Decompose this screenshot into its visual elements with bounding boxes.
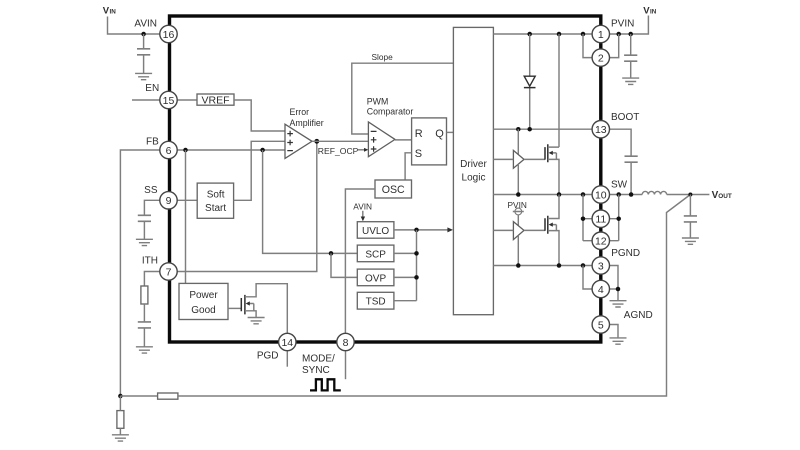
svg-text:EN: EN — [145, 83, 159, 94]
wire LS buffer to gate — [524, 229, 545, 231]
wire FB pin6 to divider node — [120, 150, 160, 396]
svg-text:9: 9 — [166, 195, 172, 207]
svg-text:8: 8 — [343, 337, 349, 349]
capacitor bootstrap — [609, 129, 638, 194]
diode bootstrap — [524, 34, 536, 129]
svg-text:UVLO: UVLO — [362, 226, 389, 237]
block SCP — [357, 245, 394, 262]
svg-text:OVP: OVP — [365, 273, 386, 284]
svg-text:11: 11 — [595, 214, 606, 226]
pin 2 — [592, 49, 609, 66]
svg-text:10: 10 — [595, 189, 607, 201]
pin 4 — [592, 280, 609, 297]
svg-text:2: 2 — [598, 52, 604, 64]
node VOUT junction — [688, 193, 692, 197]
pin 10 — [592, 186, 609, 203]
wire pin5 to ground — [609, 325, 618, 338]
wire node to top resistor — [120, 395, 157, 397]
capacitor ITH compensation — [138, 322, 151, 347]
wire inductor to VOUT — [667, 194, 710, 196]
svg-text:14: 14 — [281, 337, 293, 349]
wire FB pin6 to error amp inverting input — [177, 149, 285, 151]
wire pin2 left bracket — [583, 34, 593, 58]
wire EN stub — [132, 99, 160, 101]
svg-text:FB: FB — [146, 137, 159, 148]
pin 5 — [592, 316, 609, 333]
ground output cap — [682, 238, 699, 244]
wire SW to inductor — [609, 194, 642, 196]
svg-text:IN: IN — [650, 8, 657, 15]
block OSC — [375, 180, 412, 198]
wire FB branch to Power Good — [185, 150, 187, 283]
svg-text:Slope: Slope — [372, 52, 394, 62]
ground AVIN cap — [135, 73, 152, 79]
ground AGND (pins 3/4) — [610, 301, 627, 307]
buffer high-side gate driver — [513, 150, 524, 168]
svg-text:Good: Good — [191, 305, 215, 316]
svg-text:SCP: SCP — [365, 249, 386, 260]
wire driver logic to HS buffer — [493, 158, 513, 160]
wire pins 10-11-12 left bracket — [583, 195, 593, 241]
svg-text:AVIN: AVIN — [134, 18, 157, 29]
ground SS cap — [136, 239, 153, 245]
wire pin9 to Soft Start — [177, 199, 198, 201]
ground input cap — [622, 78, 639, 84]
node VIN (right) — [643, 5, 656, 16]
svg-text:Comparator: Comparator — [367, 107, 414, 117]
svg-text:SYNC: SYNC — [302, 365, 330, 376]
node VIN (left) — [103, 5, 116, 16]
ground feedback divider — [112, 435, 129, 441]
wire BOOT rail (driver to pin13) — [493, 128, 592, 130]
op-amp error amplifier — [285, 124, 312, 158]
svg-text:VREF: VREF — [201, 94, 229, 106]
svg-text:12: 12 — [595, 236, 607, 248]
pin 14 — [279, 333, 296, 350]
svg-text:SW: SW — [611, 180, 628, 191]
svg-text:13: 13 — [595, 124, 607, 136]
wire feedback bottom run — [178, 195, 691, 397]
wire HS buffer to gate — [524, 158, 545, 160]
wire pin7 ITH to error amp output — [177, 141, 317, 271]
svg-text:Error: Error — [290, 107, 310, 117]
capacitor SS — [138, 215, 151, 239]
op-amp PWM comparator — [368, 122, 395, 157]
svg-text:OSC: OSC — [382, 184, 405, 196]
wire pin8 stub — [345, 350, 347, 379]
wire pin1 to VIN — [609, 16, 648, 35]
capacitor output — [684, 195, 697, 239]
wire Soft Start to error amp +2 — [234, 141, 285, 200]
svg-text:MODE/: MODE/ — [302, 354, 335, 365]
wire ITH pin7 to RC — [144, 272, 160, 287]
svg-text:16: 16 — [163, 29, 175, 41]
ground pin5 — [610, 338, 627, 344]
wire Q to driver logic — [447, 131, 454, 133]
buffer low-side gate driver — [513, 222, 524, 240]
wire protection bus vertical — [416, 230, 418, 301]
svg-text:Logic: Logic — [462, 172, 486, 183]
svg-text:PGD: PGD — [257, 351, 279, 362]
ground PGD FET source — [248, 318, 265, 324]
wire FB branch to SCP — [263, 150, 358, 253]
svg-text:7: 7 — [166, 266, 172, 278]
flip-flop RS latch — [412, 118, 447, 165]
svg-text:Soft: Soft — [207, 189, 225, 200]
node FB divider junction — [118, 394, 123, 399]
wire ITH R to C — [143, 304, 145, 322]
svg-text:SS: SS — [144, 185, 158, 196]
capacitor AVIN bypass — [137, 34, 150, 73]
svg-text:15: 15 — [163, 95, 175, 107]
wire SCP output — [394, 252, 417, 254]
wire OSC to S input — [405, 153, 412, 180]
resistor feedback top (horizontal) — [158, 393, 178, 399]
svg-text:S: S — [415, 148, 422, 160]
block Soft Start — [197, 183, 233, 218]
svg-text:AGND: AGND — [624, 310, 653, 321]
wire OSC to pin8 MODE/SYNC — [345, 189, 375, 334]
node SCP/OVP branch — [329, 251, 334, 256]
svg-text:PWM: PWM — [367, 96, 389, 106]
IC boundary (thick border) — [170, 16, 601, 342]
wire HS FET drain to PVIN — [558, 34, 560, 147]
wire SS pin9 to cap — [144, 200, 160, 215]
wire PVIN rail (driver to pin1) — [493, 33, 592, 35]
svg-text:REF_OCP: REF_OCP — [318, 146, 359, 156]
wire pin3 right to ground — [609, 266, 618, 301]
wire pins 10-11-12 right bracket — [609, 195, 619, 241]
transistor PGD open-drain FET — [241, 284, 287, 334]
block OVP — [357, 269, 394, 286]
wire Power Good to PGD FET gate — [228, 307, 241, 309]
power node PVIN (internal symbol) — [508, 200, 527, 226]
svg-text:PVIN: PVIN — [611, 19, 634, 30]
block Power Good — [179, 283, 228, 319]
svg-text:5: 5 — [598, 319, 604, 331]
svg-text:Power: Power — [189, 290, 218, 301]
node FB branch 2 — [260, 148, 265, 153]
wire HS buffer low rail to SW — [517, 164, 519, 195]
block UVLO — [357, 222, 394, 239]
svg-text:AVIN: AVIN — [353, 202, 372, 212]
transistor low-side NMOS — [545, 195, 559, 266]
block Driver Logic U1 — [453, 27, 493, 314]
wire VREF to error amp +1 — [234, 100, 285, 131]
svg-text:Start: Start — [205, 203, 226, 214]
wire TSD output — [394, 300, 417, 302]
pin 13 — [592, 121, 609, 138]
ground ITH cap — [136, 347, 153, 353]
wire pins 3-4 left bracket — [583, 266, 593, 290]
wire UVLO to driver logic with arrow — [394, 229, 448, 231]
svg-text:3: 3 — [598, 260, 604, 272]
svg-text:Amplifier: Amplifier — [290, 118, 324, 128]
wire slope from driver logic to PWM comparator — [352, 63, 454, 134]
inductor output L1 — [642, 191, 666, 194]
resistor feedback bottom — [117, 411, 124, 429]
wire error amp to PWM comparator — [312, 140, 368, 142]
pin 6 — [160, 141, 177, 158]
svg-text:1: 1 — [598, 29, 604, 41]
wire PGND rail (driver to pin3) — [493, 265, 592, 267]
node AVIN junction — [141, 32, 146, 37]
svg-text:4: 4 — [598, 284, 604, 296]
svg-text:TSD: TSD — [366, 297, 386, 308]
block VREF — [197, 94, 234, 105]
wire pin4 right stub — [609, 288, 618, 290]
transistor high-side NMOS — [545, 144, 559, 194]
wire PWM comparator to R input — [395, 139, 412, 141]
svg-text:ITH: ITH — [142, 255, 158, 266]
wire branch to OVP — [331, 253, 357, 277]
pin 1 — [592, 25, 609, 42]
svg-text:BOOT: BOOT — [611, 112, 639, 123]
pin 11 — [592, 210, 609, 227]
node error amp output — [314, 139, 319, 144]
wire driver logic to LS buffer — [493, 229, 513, 231]
pin 16 — [160, 25, 177, 42]
svg-text:Driver: Driver — [460, 159, 487, 170]
pin 8 — [337, 333, 354, 350]
pin 3 — [592, 257, 609, 274]
svg-text:R: R — [415, 128, 423, 140]
svg-text:PGND: PGND — [611, 248, 640, 259]
pin 12 — [592, 232, 609, 249]
pin 9 — [160, 192, 177, 209]
svg-text:Q: Q — [435, 128, 444, 140]
wire pin2 right bracket — [609, 34, 619, 58]
svg-text:OUT: OUT — [718, 193, 732, 200]
wire SW rail (driver to pin10) — [493, 194, 592, 196]
pin 15 — [160, 91, 177, 108]
sync pulse waveform symbol — [310, 379, 341, 390]
wire VIN to pin16 — [108, 17, 161, 35]
node VOUT label — [712, 190, 732, 201]
block TSD — [357, 292, 394, 309]
wire node to bottom resistor — [119, 396, 121, 435]
wire pin14 stub — [286, 350, 288, 366]
wire BOOT to HS buffer supply — [517, 129, 519, 154]
wire OVP output — [394, 276, 417, 278]
capacitor VIN input — [624, 34, 637, 78]
svg-text:IN: IN — [110, 8, 117, 15]
pin 7 — [160, 263, 177, 280]
wire LS buffer low rail to PGND — [517, 235, 519, 265]
node UVLO line — [414, 228, 419, 233]
wire pin15 to VREF — [177, 99, 197, 101]
resistor ITH compensation — [141, 286, 148, 304]
node FB branch 1 — [183, 148, 188, 153]
svg-text:6: 6 — [166, 145, 172, 157]
